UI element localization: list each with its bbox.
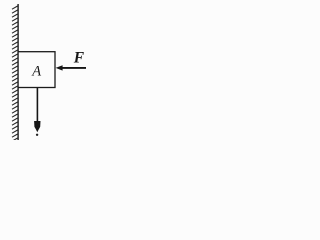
block A [18,52,55,88]
weight arrowhead [34,121,40,132]
svg-text:F: F [73,50,85,67]
force arrow F wire [62,67,87,69]
svg-text:A: A [31,63,41,79]
force arrowhead [56,65,63,70]
weight arrow wire [36,88,38,122]
wall hatching [12,6,18,141]
wall [17,4,19,140]
ink dot below arrowhead [36,134,38,136]
